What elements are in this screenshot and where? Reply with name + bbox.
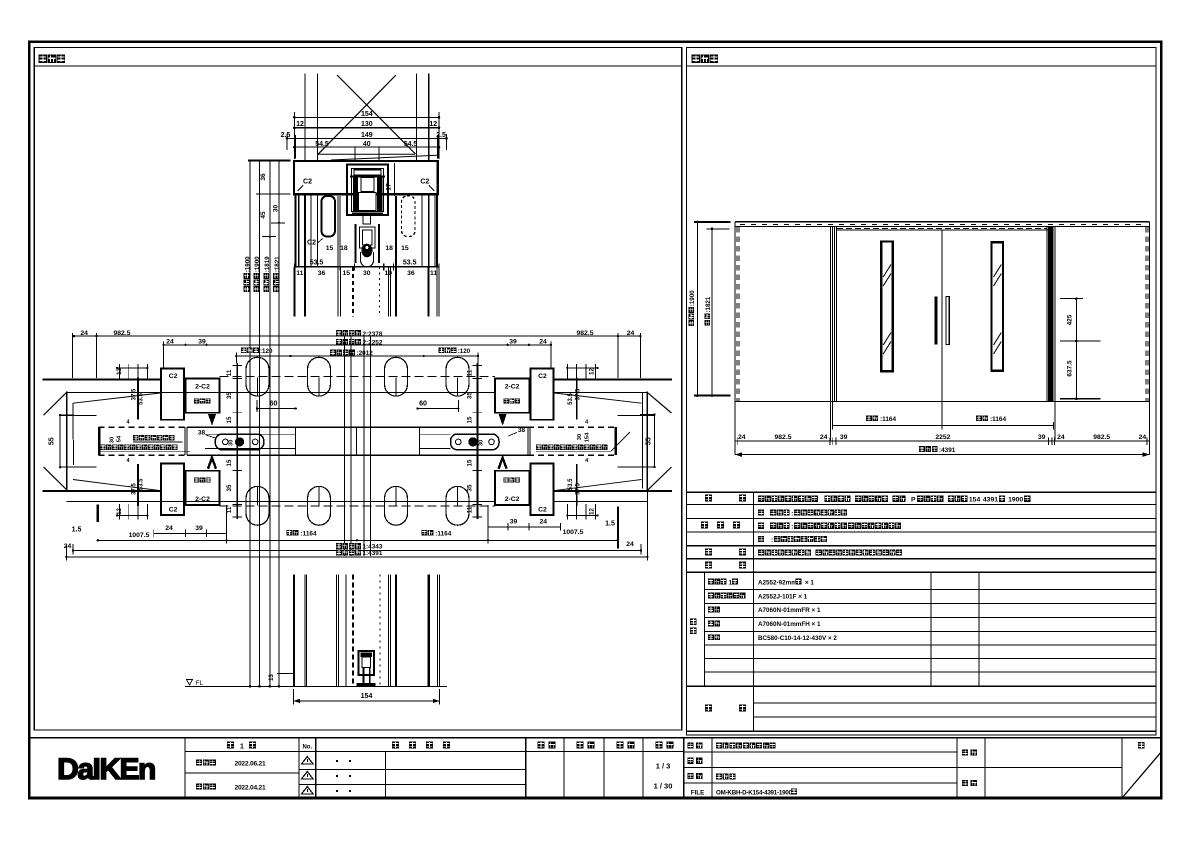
- svg-text:54.5: 54.5: [404, 141, 418, 148]
- svg-text:15: 15: [466, 416, 473, 423]
- svg-text:637.5: 637.5: [1067, 360, 1074, 377]
- svg-text:36: 36: [407, 270, 415, 277]
- roller assembly: [355, 224, 357, 263]
- svg-text:154: 154: [361, 693, 373, 700]
- svg-text::1821: :1821: [274, 256, 281, 272]
- svg-text:36: 36: [318, 270, 326, 277]
- svg-text:2-C2: 2-C2: [195, 384, 210, 391]
- lintel dash hatch: [740, 223, 1147, 225]
- svg-text::: :: [791, 524, 793, 531]
- svg-text:1: 1: [729, 579, 733, 586]
- svg-text:39: 39: [198, 338, 206, 345]
- svg-text:35: 35: [226, 392, 233, 399]
- elevation dim row 2: [735, 440, 1150, 442]
- right panel header line: [687, 65, 1156, 67]
- shounin header: [538, 742, 545, 749]
- band dividers: [295, 427, 297, 455]
- title block verticals: [184, 738, 186, 798]
- tobira width labels 1164: [287, 530, 293, 536]
- handle dims 425 and 637.5: [1075, 299, 1077, 399]
- svg-text:15: 15: [326, 245, 334, 252]
- mid vertical dim line right: [476, 363, 478, 519]
- kaitei date row: [196, 783, 202, 789]
- svg-text:2-C2: 2-C2: [505, 384, 520, 391]
- frame corner box right bottom: [531, 464, 554, 515]
- dim row 149 with 2.5s: [287, 137, 447, 139]
- shiage row 1 panel orefin: [758, 509, 764, 515]
- svg-text:A2552J-101F × 1: A2552J-101F × 1: [758, 593, 808, 600]
- zuin label: [962, 780, 968, 786]
- latch right: [451, 434, 500, 450]
- svg-text:154: 154: [585, 432, 591, 442]
- cap text left line2 underlined: [100, 444, 106, 450]
- svg-text:55: 55: [49, 437, 56, 445]
- svg-text:35: 35: [466, 484, 473, 491]
- right door jamb black band: [1048, 227, 1053, 402]
- right door handle outline: [946, 297, 949, 345]
- page diagonal: [1122, 752, 1161, 798]
- svg-text:38: 38: [198, 429, 206, 436]
- right panel border: [687, 48, 1156, 736]
- door top line: [836, 229, 1048, 231]
- right panel title shomenzu: [692, 55, 701, 64]
- bikou label: [705, 705, 712, 712]
- svg-text::1900: :1900: [254, 256, 261, 272]
- svg-text:24: 24: [540, 518, 548, 525]
- svg-text:30: 30: [363, 270, 371, 277]
- svg-text:30: 30: [110, 437, 116, 443]
- hinban sub rows: [705, 589, 1156, 591]
- zumei value sanmenzu: [716, 773, 722, 779]
- left door jamb lines: [829, 227, 831, 442]
- svg-text:2022.04.21: 2022.04.21: [234, 785, 266, 792]
- svg-text:12: 12: [296, 121, 304, 128]
- label yuko kaiko 2012: [330, 350, 336, 356]
- pocket cavity lines left: [59, 415, 96, 417]
- svg-text:982.5: 982.5: [576, 330, 593, 337]
- svg-text::1164: :1164: [880, 416, 896, 423]
- cap box right bold edge: [615, 427, 617, 455]
- verticals below header box: [298, 195, 300, 267]
- svg-text:15: 15: [343, 270, 351, 277]
- hinban row labels: [708, 579, 714, 585]
- svg-text:30: 30: [272, 205, 279, 213]
- meisho value omoiyari series: [716, 743, 722, 749]
- wakugaihaba1 4343 dim: [73, 550, 641, 552]
- svg-text:C2: C2: [169, 506, 178, 513]
- svg-text:39: 39: [195, 525, 203, 532]
- left pocket bevels: [44, 392, 68, 491]
- kenmei label: [962, 749, 968, 755]
- svg-text:18: 18: [340, 245, 348, 252]
- svg-text:37.5: 37.5: [131, 483, 137, 495]
- revision triangle rows: [299, 769, 526, 771]
- 154 dim below floor: [294, 700, 440, 702]
- svg-text::1164: :1164: [435, 530, 451, 537]
- svg-text:2252: 2252: [935, 434, 950, 441]
- svg-text:38: 38: [518, 427, 526, 434]
- seitei date row: [185, 772, 299, 774]
- spec table vertical lines: [753, 492, 755, 731]
- sill section verticals: [293, 575, 295, 687]
- door meeting stile: [941, 230, 943, 426]
- rev table header dai-1-han: [185, 751, 684, 753]
- svg-text:11: 11: [430, 270, 437, 277]
- svg-text:12: 12: [590, 508, 596, 515]
- mid vertical dim line left: [236, 363, 238, 519]
- svg-text:12: 12: [429, 121, 437, 128]
- label hikinokoshi 120 left: [241, 348, 247, 354]
- svg-text:2022.06.21: 2022.06.21: [234, 761, 266, 768]
- door top rail dashed: [837, 227, 1047, 229]
- section verticals below dim row: [293, 267, 295, 317]
- right pocket bevels: [647, 393, 671, 491]
- svg-text:425: 425: [1067, 314, 1074, 325]
- svg-text::120: :120: [260, 348, 273, 355]
- X cross bracing: [318, 75, 437, 160]
- svg-text:24: 24: [1139, 434, 1147, 441]
- plan top dim row 2 (24 39 2252): [164, 344, 551, 346]
- page header: [1138, 742, 1145, 749]
- svg-text:FILE: FILE: [691, 790, 704, 797]
- left panel border: [34, 48, 682, 731]
- svg-text:24: 24: [165, 525, 173, 532]
- kaitei rireki header: [392, 742, 399, 749]
- svg-text:982.5: 982.5: [113, 330, 130, 337]
- svg-text:30: 30: [478, 440, 484, 446]
- left pocket outer frame line: [734, 222, 736, 455]
- left panel header line: [34, 65, 682, 67]
- svg-text:24: 24: [64, 543, 72, 550]
- svg-text:39: 39: [509, 338, 517, 345]
- svg-text:2.5: 2.5: [281, 132, 291, 139]
- bottom dim row of head section: [294, 266, 439, 268]
- svg-text:45: 45: [260, 211, 267, 219]
- svg-text:1007.5: 1007.5: [563, 529, 584, 536]
- right door slot dashed: [402, 196, 416, 237]
- svg-text:1007.5: 1007.5: [129, 532, 150, 539]
- bold slash ticks for 1.5: [97, 505, 99, 523]
- central guide rail band top line: [98, 426, 186, 428]
- svg-text:15: 15: [401, 245, 409, 252]
- svg-text:× 1: × 1: [805, 579, 814, 586]
- svg-text:982.5: 982.5: [774, 434, 791, 441]
- svg-text:P: P: [911, 497, 916, 504]
- svg-text:13: 13: [269, 674, 275, 681]
- katashiki row: [705, 495, 712, 502]
- svg-text:60: 60: [419, 400, 427, 407]
- FL marker: [187, 680, 193, 686]
- svg-text:1900: 1900: [1008, 497, 1023, 504]
- svg-text:C2: C2: [169, 373, 178, 380]
- svg-text:39: 39: [1038, 434, 1046, 441]
- svg-text:53.5: 53.5: [403, 260, 417, 267]
- latch left: [215, 434, 263, 450]
- svg-text:C2: C2: [307, 240, 316, 247]
- right door glass slit: [992, 242, 1004, 371]
- band inner segment lines: [205, 433, 296, 435]
- svg-text:17: 17: [386, 183, 393, 191]
- kakunin header: [577, 742, 584, 749]
- left tall dimension lines 1900 1819 1821: [249, 160, 251, 686]
- 55 dim left: [59, 415, 61, 467]
- svg-text:FL: FL: [196, 680, 204, 687]
- svg-text::1900: :1900: [244, 256, 251, 272]
- sakusei header: [617, 742, 624, 749]
- svg-text::1164: :1164: [301, 530, 317, 537]
- band junction verticals: [184, 427, 186, 455]
- rail hanger bracket: [347, 165, 388, 216]
- svg-text:C2: C2: [538, 373, 547, 380]
- svg-text:11: 11: [466, 506, 473, 513]
- rireki dot rows: [336, 760, 338, 762]
- svg-text:60: 60: [270, 400, 278, 407]
- svg-text::1900: :1900: [689, 290, 696, 306]
- elevation door height dim 1821: [711, 229, 713, 396]
- svg-text:154: 154: [361, 111, 373, 118]
- vertical label rail height 1819: [263, 256, 271, 292]
- vertical label wakugaidaka 1900: [253, 256, 261, 292]
- hanger stem: [363, 215, 371, 224]
- svg-text:1.5: 1.5: [605, 521, 615, 528]
- wedge lines under cross: [318, 153, 415, 155]
- svg-text:BC580-C10-14-12-430V × 2: BC580-C10-14-12-430V × 2: [758, 635, 837, 642]
- label wakugaihaba2 2252: [336, 339, 342, 345]
- svg-text::1819: :1819: [264, 256, 271, 272]
- svg-text:12: 12: [590, 368, 596, 375]
- left panel title danmenzu: [39, 55, 48, 64]
- svg-text:24: 24: [820, 434, 828, 441]
- top wall inner line: [66, 391, 495, 393]
- svg-text:53.5: 53.5: [310, 260, 324, 267]
- small dim cluster left top: [117, 367, 147, 369]
- elevation height dim 1900: [696, 222, 698, 396]
- plan top dim row 1 (24 982.5 2378): [74, 335, 640, 337]
- plan bottom dim row frame (24 39 / 39 24): [154, 532, 227, 534]
- svg-text::4391: :4391: [939, 447, 956, 454]
- svg-text:18: 18: [385, 245, 393, 252]
- 55 dim right: [653, 415, 655, 468]
- svg-text:154: 154: [969, 497, 981, 504]
- svg-text:36: 36: [260, 173, 267, 181]
- svg-text:No.: No.: [302, 745, 312, 751]
- ext verticals for 1164 dims: [226, 505, 228, 544]
- left pocket dashed panel lines: [736, 227, 738, 401]
- meisho label: [688, 742, 694, 748]
- svg-text:4391: 4391: [983, 497, 998, 504]
- svg-text:54: 54: [117, 435, 123, 442]
- svg-text:A7060N-01mmFR × 1: A7060N-01mmFR × 1: [758, 607, 821, 614]
- svg-text:11: 11: [296, 270, 303, 277]
- svg-text:37.5: 37.5: [131, 388, 137, 400]
- svg-text:24: 24: [80, 330, 88, 337]
- floor line: [735, 400, 1150, 402]
- hinban label: [688, 758, 694, 764]
- shiage row 2 saikoubu: [758, 523, 764, 529]
- wakugaihaba1 4391 dim: [66, 556, 647, 558]
- spec table horizontal lines: [687, 491, 1156, 493]
- svg-text:30: 30: [229, 440, 235, 446]
- right pocket outer frame line: [1148, 222, 1150, 455]
- dim row 54.5 40 54.5: [294, 146, 439, 148]
- svg-text:55: 55: [646, 437, 653, 445]
- svg-text:11: 11: [226, 369, 233, 376]
- svg-text:54.5: 54.5: [315, 141, 329, 148]
- svg-text:15: 15: [466, 459, 473, 466]
- frame corner box right top: [531, 369, 554, 420]
- svg-text:24: 24: [539, 338, 547, 345]
- top wall bold lines at pockets: [43, 378, 162, 380]
- title block top line: [29, 737, 1161, 739]
- svg-text:OM-KBH-D-K154-4391-1900-: OM-KBH-D-K154-4391-1900-: [716, 789, 794, 796]
- totte row: [705, 548, 712, 555]
- dim row 130 with 12s: [294, 127, 439, 129]
- svg-text:12: 12: [117, 508, 123, 515]
- left door slot in header: [322, 196, 336, 237]
- svg-text:1.5: 1.5: [72, 526, 82, 533]
- plan top dim row 3 (hikinokoshi 120, yuko kaiko 2012): [236, 355, 478, 357]
- hinban vertical label: [690, 619, 697, 626]
- shiage row 3 waku orefin: [758, 536, 764, 542]
- svg-text:24: 24: [627, 330, 635, 337]
- svg-text:15: 15: [226, 416, 233, 423]
- svg-text:39: 39: [510, 518, 518, 525]
- svg-text:C2: C2: [538, 506, 547, 513]
- wall studs above header: [304, 74, 306, 161]
- small dim cluster right bottom: [567, 515, 597, 517]
- head rail header box: [294, 161, 438, 194]
- svg-text::1164: :1164: [990, 416, 1006, 423]
- cap text right underlined with leader: [536, 444, 542, 450]
- svg-text:11: 11: [466, 369, 473, 376]
- svg-text::1821: :1821: [705, 296, 712, 312]
- right pocket dashed panel lines: [1145, 227, 1147, 401]
- dim row 154: [294, 116, 439, 118]
- svg-text:15: 15: [226, 459, 233, 466]
- svg-text:24: 24: [738, 434, 746, 441]
- svg-text::: :: [771, 537, 773, 544]
- frame corner box left top: [161, 369, 184, 420]
- cap box left bold edge: [98, 427, 100, 455]
- vertical label door height 1821: [273, 256, 281, 292]
- svg-text:11: 11: [226, 506, 233, 513]
- svg-text:1 / 30: 1 / 30: [654, 782, 673, 791]
- bottom wall inner line: [66, 500, 495, 502]
- left pocket end cap: [66, 391, 68, 491]
- long verticals crossing plan: [344, 337, 346, 557]
- cap text left line1 underlined: [133, 435, 139, 441]
- svg-text:40: 40: [363, 141, 371, 148]
- svg-text::: :: [791, 510, 793, 517]
- svg-text:1:4391: 1:4391: [363, 550, 383, 557]
- lintel bottom line: [735, 226, 1150, 228]
- zumei label: [688, 773, 694, 779]
- svg-text:24: 24: [1057, 434, 1065, 441]
- svg-text:C2: C2: [420, 179, 429, 186]
- leader lines pocket to dims: [73, 393, 642, 491]
- label wakugaihaba2 2378: [336, 330, 342, 336]
- svg-text:1 / 3: 1 / 3: [656, 762, 671, 771]
- svg-text:A2552-92mmF: A2552-92mmF: [758, 579, 801, 586]
- name rows right: [684, 751, 957, 753]
- door width dim row 1007.5 1164 1164 1007.5: [98, 539, 618, 541]
- svg-text:24: 24: [626, 541, 634, 548]
- svg-text:30: 30: [577, 434, 583, 440]
- tosou row label: [705, 562, 712, 569]
- svg-text:C2: C2: [303, 179, 312, 186]
- small dim cluster right top: [567, 367, 597, 369]
- small dim cluster left bottom: [117, 515, 147, 517]
- vertical labels kaikoudaka 1900: [244, 256, 252, 292]
- svg-text:1: 1: [240, 744, 244, 751]
- svg-text:2:2378: 2:2378: [363, 331, 383, 338]
- svg-text:A7060N-01mmFH × 1: A7060N-01mmFH × 1: [758, 621, 821, 628]
- svg-text:130: 130: [361, 121, 373, 128]
- shukushaku header: [656, 742, 663, 749]
- elevation dim row door widths 1164: [832, 425, 1053, 427]
- bikou sub rows: [754, 702, 1157, 704]
- dim extension verticals top: [293, 112, 295, 159]
- svg-text:12: 12: [117, 368, 123, 375]
- svg-text:39: 39: [840, 434, 848, 441]
- label hikinokoshi 120 right: [439, 348, 445, 354]
- svg-text:149: 149: [361, 132, 373, 139]
- lintel top line: [735, 221, 1150, 223]
- bottom wall bold lines at pockets: [43, 490, 162, 492]
- svg-text:DaIKEn: DaIKEn: [57, 753, 155, 786]
- elevation total width 4391: [735, 454, 1150, 456]
- ellipse rollers bottom row: [246, 486, 269, 525]
- central band bottom line: [98, 454, 186, 456]
- svg-text:35: 35: [466, 392, 473, 399]
- svg-text:53.5: 53.5: [139, 393, 145, 405]
- ellipse rollers top row: [246, 357, 269, 396]
- svg-text::120: :120: [458, 348, 471, 355]
- svg-text:2-C2: 2-C2: [195, 496, 210, 503]
- svg-text:2-C2: 2-C2: [505, 496, 520, 503]
- svg-text:982.5: 982.5: [1093, 434, 1110, 441]
- left door handle filled: [934, 297, 937, 345]
- floor guide detail: [359, 651, 375, 675]
- dashed centerlines through door zone: [220, 376, 496, 378]
- svg-text:2:2252: 2:2252: [363, 339, 383, 346]
- svg-text:35: 35: [226, 484, 233, 491]
- plan dim extension stubs top: [72, 333, 74, 378]
- frame corner box left bottom: [161, 464, 184, 515]
- svg-text:24: 24: [166, 338, 174, 345]
- left door glass slit: [881, 242, 893, 372]
- pocket cavity lines right: [618, 415, 656, 417]
- FL floor line: [185, 685, 447, 687]
- shiage label: [701, 522, 708, 529]
